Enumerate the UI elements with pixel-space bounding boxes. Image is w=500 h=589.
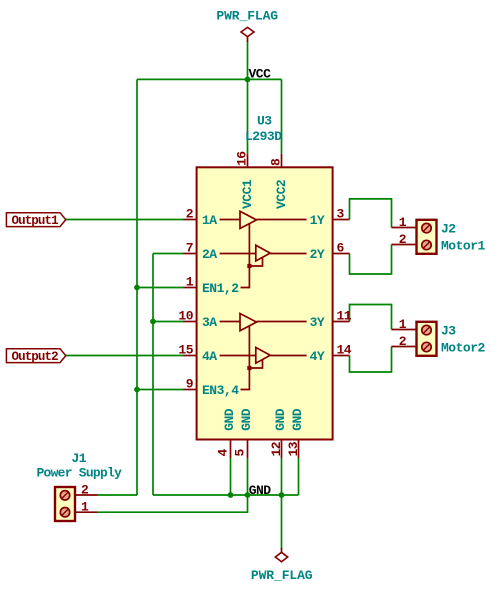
line triangle 3 to 3Y: [257, 321, 307, 323]
svg-text:VCC1: VCC1: [240, 179, 255, 209]
junction 3A tap: [150, 319, 156, 325]
svg-text:2: 2: [186, 207, 194, 222]
wire pin 3 to J2 pin 1: [350, 199, 392, 228]
svg-text:GND: GND: [273, 408, 288, 431]
wire pin 9 EN3,4 to VCC column: [137, 389, 184, 391]
wire VCC top horizontal: [137, 78, 282, 80]
wire pin 13 to GND bus: [298, 458, 300, 495]
wire Output2 to pin 15: [66, 355, 184, 357]
enable junction square EN3,4: [247, 366, 251, 370]
pin 9 EN3,4 stub: [184, 389, 198, 391]
wire pin 14 to J3 pin 2: [350, 347, 392, 373]
svg-text:L293D: L293D: [245, 129, 282, 144]
svg-text:9: 9: [186, 377, 194, 392]
wire J1 pin 2 to VCC column: [98, 494, 138, 496]
wire VCC to pin 8: [281, 79, 283, 153]
svg-text:PWR_FLAG: PWR_FLAG: [216, 8, 278, 23]
global label Output2: [6, 349, 65, 364]
connector J1 body: [55, 487, 75, 521]
svg-text:PWR_FLAG: PWR_FLAG: [251, 568, 313, 583]
svg-text:1: 1: [81, 500, 89, 515]
svg-text:3: 3: [337, 207, 345, 222]
svg-text:13: 13: [286, 441, 301, 456]
line triangle 1 to 1Y: [257, 219, 307, 221]
svg-text:VCC: VCC: [249, 66, 272, 81]
connector J3 screw 2: [422, 342, 431, 351]
pin 13 GND stub: [298, 440, 300, 459]
connector J3 body: [417, 322, 437, 356]
svg-text:14: 14: [337, 343, 352, 358]
svg-text:7: 7: [186, 241, 193, 256]
junction EN1,2 tap: [134, 285, 140, 291]
line 3A to triangle 3: [220, 321, 240, 323]
global label Output1: [6, 213, 65, 228]
buffer triangle channel 3: [240, 314, 257, 331]
pin 5 GND stub: [247, 440, 249, 459]
svg-text:GND: GND: [239, 408, 254, 431]
line 2A to triangle 2: [220, 253, 256, 255]
svg-text:1: 1: [399, 317, 407, 332]
buffer triangle channel 2: [256, 245, 270, 261]
svg-text:2Y: 2Y: [310, 247, 325, 262]
svg-text:Output1: Output1: [12, 214, 59, 228]
junction GND pin 12: [279, 492, 285, 498]
svg-text:J1: J1: [72, 451, 87, 466]
svg-text:EN1,2: EN1,2: [202, 281, 239, 296]
connector J2 pin 1 stub: [392, 227, 417, 229]
buffer triangle channel 4: [256, 347, 270, 363]
connector J1 screw 2: [60, 508, 69, 517]
wire pin 7 stub to GND column: [153, 253, 184, 255]
pin 16 VCC1 stub: [247, 154, 249, 168]
svg-text:J3: J3: [441, 324, 456, 339]
svg-text:GND: GND: [290, 408, 305, 431]
svg-text:4A: 4A: [202, 349, 217, 364]
svg-text:EN3,4: EN3,4: [202, 383, 239, 398]
enable junction square EN1,2: [247, 264, 251, 268]
svg-text:11: 11: [337, 309, 352, 324]
svg-text:U3: U3: [257, 114, 272, 129]
pin 6 2Y stub: [333, 253, 350, 255]
svg-text:4Y: 4Y: [310, 349, 325, 364]
svg-text:2A: 2A: [202, 247, 217, 262]
pin 4 GND stub: [230, 440, 232, 459]
connector J1 pin 2 stub: [75, 494, 98, 496]
svg-text:5: 5: [233, 449, 248, 457]
line 1A to triangle 1: [220, 219, 240, 221]
svg-text:2: 2: [81, 482, 89, 497]
connector J3 screw 1: [422, 325, 431, 334]
enable line EN3,4: [241, 326, 250, 390]
pin 1 EN1,2 stub: [184, 287, 198, 289]
svg-text:3A: 3A: [202, 315, 217, 330]
wire pin 1 EN1,2 to VCC column: [137, 287, 184, 289]
svg-text:12: 12: [269, 441, 284, 456]
svg-text:4: 4: [216, 449, 231, 457]
junction GND pin 4: [228, 492, 234, 498]
pin 12 GND stub: [281, 440, 283, 459]
wire pin 12 to GND bus and bottom PWR_FLAG: [281, 458, 283, 549]
pin 3 1Y stub: [333, 219, 350, 221]
svg-text:6: 6: [337, 241, 345, 256]
connector J2 body: [417, 220, 437, 254]
wire pin 4 to GND bus: [230, 458, 232, 495]
connector J1 pin 1 stub: [75, 511, 98, 513]
svg-text:2: 2: [399, 334, 407, 349]
svg-text:15: 15: [178, 343, 193, 358]
pin 2 1A stub: [184, 219, 198, 221]
connector J2 screw 2: [422, 240, 431, 249]
wire pin 10 stub to GND column: [153, 321, 184, 323]
svg-text:Output2: Output2: [12, 350, 59, 364]
pin 11 3Y stub: [333, 321, 350, 323]
connector J2 screw 1: [422, 223, 431, 232]
svg-text:VCC2: VCC2: [274, 179, 289, 209]
wire pin 5 to GND bus and J1 pin 1: [98, 458, 248, 512]
connector J2 pin 2 stub: [392, 244, 417, 246]
enable branch to triangle 2: [249, 258, 262, 266]
ic U3 body: [197, 167, 333, 439]
svg-text:1Y: 1Y: [310, 213, 325, 228]
svg-text:GND: GND: [249, 483, 272, 498]
junction EN3,4 tap: [134, 387, 140, 393]
svg-text:2: 2: [399, 232, 407, 247]
svg-text:Motor2: Motor2: [441, 341, 486, 356]
svg-text:1A: 1A: [202, 213, 217, 228]
wire VCC vertical column: [136, 79, 138, 495]
line 4A to triangle 4: [220, 355, 256, 357]
buffer triangle channel 1: [240, 211, 257, 228]
wire GND bus horizontal: [153, 494, 299, 496]
enable line EN1,2: [241, 224, 250, 288]
line triangle 4 to 4Y: [270, 355, 306, 357]
power flag bottom diamond: [275, 548, 287, 562]
svg-text:GND: GND: [222, 408, 237, 431]
svg-text:1: 1: [186, 275, 194, 290]
svg-text:3Y: 3Y: [310, 315, 325, 330]
pin 10 3A stub: [184, 321, 198, 323]
power flag top diamond: [241, 27, 254, 42]
junction VCC node: [245, 77, 251, 83]
svg-text:16: 16: [235, 151, 250, 166]
connector J3 pin 1 stub: [392, 329, 417, 331]
svg-text:J2: J2: [441, 222, 456, 237]
connector J1 screw 1: [60, 491, 69, 500]
pin 7 2A stub: [184, 253, 198, 255]
wire pin 11 to J3 pin 1: [350, 305, 392, 330]
svg-text:10: 10: [178, 309, 193, 324]
svg-text:Motor1: Motor1: [441, 239, 486, 254]
svg-text:Power Supply: Power Supply: [37, 466, 123, 481]
pin 8 VCC2 stub: [281, 154, 283, 168]
line triangle 2 to 2Y: [270, 253, 306, 255]
junction GND pin 5: [245, 492, 251, 498]
pin 15 4A stub: [184, 355, 198, 357]
enable branch to triangle 4: [249, 360, 262, 368]
pin 14 4Y stub: [333, 355, 350, 357]
wire GND vertical column: [152, 254, 154, 496]
wire PWR_FLAG to pin 16: [247, 41, 249, 154]
svg-text:8: 8: [269, 158, 284, 166]
svg-text:1: 1: [399, 215, 407, 230]
connector J3 pin 2 stub: [392, 346, 417, 348]
wire pin 6 to J2 pin 2: [350, 245, 392, 275]
wire Output1 to pin 2: [66, 219, 184, 221]
